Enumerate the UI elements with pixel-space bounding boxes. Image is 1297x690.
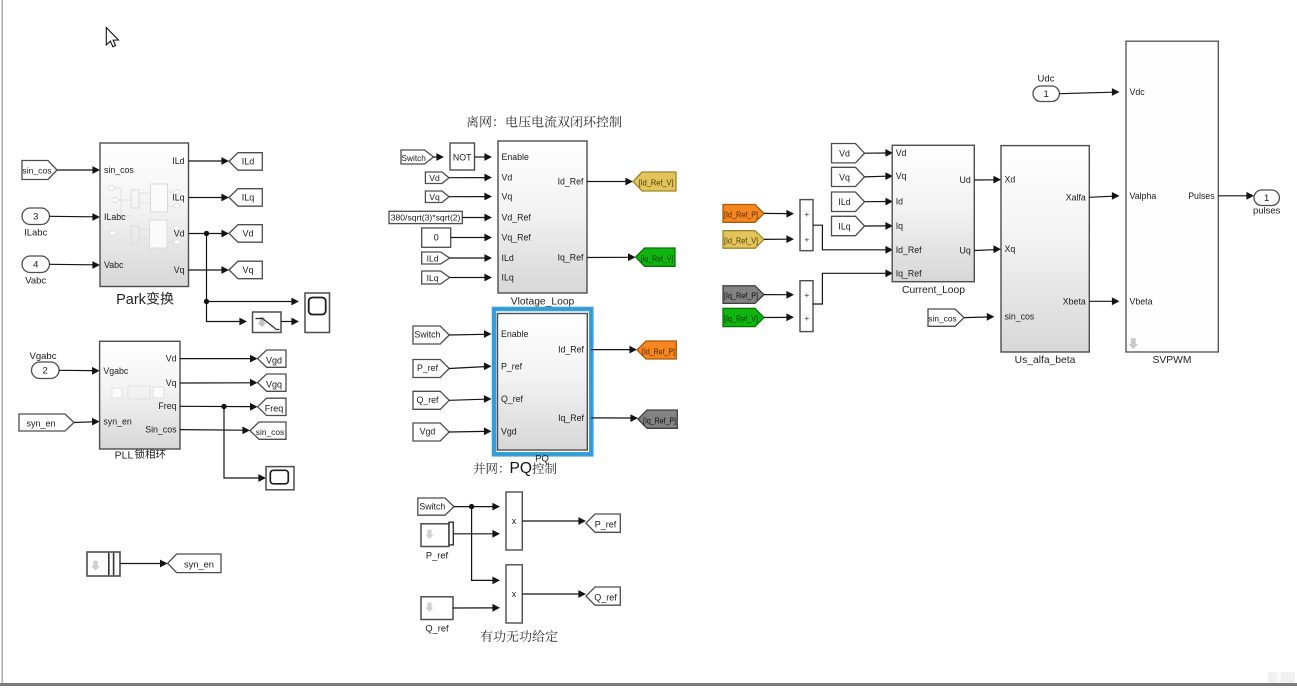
svg-text:Vgd: Vgd	[266, 355, 282, 365]
source block P_ref	[421, 524, 449, 547]
wire product1 to P_ref goto	[522, 520, 579, 522]
svg-text:ILd: ILd	[427, 253, 439, 263]
watermark	[1268, 672, 1295, 683]
inport 2 Vgabc	[32, 362, 60, 379]
wire Vd to Vloop	[449, 177, 485, 179]
from tag P_ref (PQ)	[413, 360, 449, 378]
subsystem Vlotage_Loop	[498, 141, 587, 293]
svg-text:Xq: Xq	[1005, 244, 1016, 254]
svg-text:sin_cos: sin_cos	[22, 165, 51, 175]
wire Q_ref to product2	[453, 607, 493, 609]
wire const380 to Vloop	[462, 217, 485, 219]
svg-text:Vq: Vq	[166, 378, 177, 388]
constant 0	[422, 228, 451, 247]
svg-text:Vabc: Vabc	[25, 276, 46, 287]
svg-text:PQ: PQ	[535, 454, 549, 465]
product block 2	[506, 565, 522, 623]
goto tag sin_cos	[250, 422, 286, 439]
wire sum2 to Iq_Ref port	[813, 273, 886, 304]
svg-text:ILabc: ILabc	[24, 228, 47, 239]
wire sum1 to Id_Ref port	[813, 225, 886, 250]
svg-text:pulses: pulses	[1253, 206, 1281, 217]
goto tag ILd	[229, 153, 262, 171]
svg-text:380/sqrt(3)*sqrt(2): 380/sqrt(3)*sqrt(2)	[391, 213, 461, 223]
svg-text:syn_en: syn_en	[26, 419, 55, 429]
svg-text:Vq: Vq	[839, 172, 850, 182]
svg-text:Vq: Vq	[429, 192, 440, 202]
svg-text:Q_ref: Q_ref	[501, 394, 524, 404]
svg-text:+: +	[804, 209, 809, 219]
wire pulse to syn_en goto	[120, 563, 161, 565]
from tag Q_ref (PQ)	[413, 391, 449, 409]
title 离网：电压电流双闭环控制	[467, 116, 622, 128]
goto tag Freq	[258, 398, 286, 415]
wire Pulses to outport	[1218, 195, 1247, 197]
from tag ILq (Vloop)	[422, 271, 450, 284]
svg-text:Q_ref: Q_ref	[425, 624, 449, 634]
svg-text:Xd: Xd	[1005, 175, 1016, 185]
svg-text:Id_Ref: Id_Ref	[558, 177, 584, 187]
logic NOT block	[450, 143, 475, 170]
from tag syn_en	[19, 414, 74, 431]
wire sin_cos to Us_alfa_beta	[964, 316, 988, 319]
svg-text:Vd: Vd	[242, 229, 253, 239]
wire P_ref to PQ	[449, 367, 485, 369]
svg-text:+: +	[804, 290, 809, 300]
svg-text:ILq: ILq	[838, 221, 850, 231]
svg-text:Vgq: Vgq	[266, 379, 282, 389]
scope Scope1	[305, 293, 330, 333]
from tag sin_cos	[22, 161, 57, 180]
svg-text:Park: Park	[116, 292, 147, 308]
svg-text:+: +	[804, 313, 809, 323]
svg-text:x: x	[512, 516, 517, 526]
junction Switch branch	[469, 504, 474, 509]
wire Vd to cl	[865, 152, 887, 154]
svg-text:Enable: Enable	[501, 329, 528, 339]
svg-text:Pulses: Pulses	[1188, 191, 1215, 201]
from tag ILd (cl)	[832, 192, 865, 212]
svg-text:2: 2	[43, 366, 48, 377]
svg-text:Enable: Enable	[502, 152, 529, 162]
svg-text:1: 1	[1264, 193, 1269, 204]
svg-text:ILd: ILd	[502, 253, 514, 263]
from tag Vd (cl)	[832, 144, 865, 163]
svg-text:sin_cos: sin_cos	[1005, 312, 1035, 322]
wire NOT to Enable	[475, 156, 486, 158]
from tag Id_Ref_V yellow	[723, 231, 764, 249]
goto tag ILq	[229, 189, 262, 207]
wire gray to sum2	[764, 294, 787, 296]
wire ILd to Vloop	[450, 257, 486, 259]
product block 1	[506, 492, 522, 550]
svg-text:Vd: Vd	[839, 149, 850, 159]
svg-text:ILd: ILd	[838, 197, 850, 207]
subsystem Current_Loop	[892, 145, 974, 281]
from tag ILd (Vloop)	[422, 252, 450, 264]
rate transition block	[253, 312, 282, 333]
goto tag Vq	[229, 261, 262, 279]
svg-text:Vq: Vq	[242, 265, 253, 275]
wire PLL Vd to Vgd	[180, 358, 251, 360]
wire Switch to PQ	[449, 333, 485, 336]
svg-text:Switch: Switch	[415, 330, 441, 340]
wire syn_en to PLL	[74, 421, 93, 424]
wire Vq to cl	[865, 175, 887, 178]
goto tag Id_Ref_P orange	[637, 341, 676, 359]
svg-text:Ud: Ud	[960, 175, 971, 185]
svg-text:P_ref: P_ref	[417, 363, 439, 373]
outport pulses 1	[1254, 190, 1279, 206]
svg-text:Vq: Vq	[502, 192, 513, 202]
svg-text:1: 1	[1044, 89, 1049, 100]
subsystem Us_alfa_beta	[1001, 146, 1089, 352]
wire inport4 to Park	[50, 263, 94, 266]
svg-text:[Iq_Ref_P]: [Iq_Ref_P]	[643, 415, 676, 425]
goto tag Q_ref	[586, 587, 620, 605]
wire Park Vq to tag	[189, 269, 223, 271]
svg-text:Vq_Ref: Vq_Ref	[502, 233, 532, 243]
wire Xalfa to Valpha	[1089, 196, 1113, 197]
wire inport2 to PLL	[59, 369, 93, 371]
wire const0 to Vloop	[451, 237, 486, 239]
goto tag Vgq	[258, 374, 286, 391]
svg-text:NOT: NOT	[453, 153, 472, 163]
svg-text:sin_cos: sin_cos	[928, 314, 956, 324]
wire Xbeta to Vbeta	[1089, 300, 1113, 302]
svg-text:Vd: Vd	[896, 148, 907, 158]
wire Ud to Xd	[974, 179, 994, 181]
junction Vd scope branch	[204, 299, 209, 304]
wire P_ref to product1	[453, 533, 493, 535]
svg-text:Valpha: Valpha	[1130, 191, 1157, 201]
svg-text:syn_en: syn_en	[103, 417, 131, 427]
from tag Iq_Ref_P gray	[723, 286, 764, 304]
svg-text:Iq: Iq	[896, 221, 903, 231]
from tag Switch (PQ)	[413, 326, 449, 344]
wire branch to scope1 input1	[207, 301, 293, 303]
wire PLL Sin_cos to tag	[180, 429, 243, 432]
svg-text:syn_en: syn_en	[184, 560, 214, 570]
svg-text:Vq: Vq	[174, 265, 185, 275]
junction Freq branch	[221, 404, 226, 409]
inport 4 Vabc	[22, 256, 50, 273]
wire green to sum2	[764, 316, 787, 318]
wire ILq to cl	[865, 225, 887, 227]
svg-text:Current_Loop: Current_Loop	[902, 285, 965, 296]
goto tag syn_en out	[168, 554, 221, 573]
svg-text:[Iq_Ref_V]: [Iq_Ref_V]	[724, 314, 758, 324]
from tag Vq (cl)	[832, 167, 865, 186]
wire Freq branch to scope2	[224, 407, 259, 479]
svg-text:Xbeta: Xbeta	[1063, 296, 1086, 306]
svg-text:4: 4	[33, 260, 38, 271]
goto tag Id_Ref_V yellow	[633, 172, 676, 191]
svg-text:Q_ref: Q_ref	[416, 395, 439, 405]
subsystem SVPWM	[1126, 41, 1218, 352]
svg-text:P_ref: P_ref	[595, 519, 617, 529]
svg-text:+: +	[804, 235, 809, 245]
svg-text:Vgd: Vgd	[420, 427, 436, 437]
wire Q_ref to PQ	[449, 399, 485, 400]
svg-text:Vd_Ref: Vd_Ref	[502, 213, 532, 223]
svg-text:Udc: Udc	[1038, 74, 1055, 85]
svg-text:[Id_Ref_P]: [Id_Ref_P]	[642, 346, 675, 356]
svg-text:Vq: Vq	[896, 171, 907, 181]
svg-text:P_ref: P_ref	[426, 551, 449, 561]
svg-text:Id_Ref: Id_Ref	[558, 345, 584, 355]
svg-text:Vdc: Vdc	[1130, 87, 1146, 97]
source block Q_ref	[421, 597, 453, 620]
wire ILd to cl	[865, 201, 887, 203]
from tag Vgd (PQ)	[413, 423, 449, 441]
goto tag Iq_Ref_P gray	[638, 410, 677, 428]
wire Uq to Xq	[974, 249, 994, 252]
from tag Switch (ref)	[418, 498, 454, 515]
svg-text:Sin_cos: Sin_cos	[145, 425, 177, 435]
inport 3 ILabc	[22, 208, 50, 225]
wire Udc to Vdc	[1059, 92, 1113, 94]
svg-text:Iq_Ref: Iq_Ref	[558, 413, 584, 423]
wire rate block to scope1 input2	[281, 321, 292, 323]
svg-text:sin_cos: sin_cos	[256, 427, 284, 437]
svg-text:[Id_Ref_V]: [Id_Ref_V]	[639, 178, 674, 188]
svg-text:ILq: ILq	[502, 273, 514, 283]
canvas left edge	[1, 0, 3, 684]
wire PLL Vq to Vgq	[180, 382, 251, 384]
from tag Vq (Vloop)	[425, 191, 449, 203]
wire sin_cos to Park	[57, 169, 93, 171]
from tag Iq_Ref_V green	[723, 308, 764, 326]
svg-text:ILabc: ILabc	[104, 212, 126, 222]
wire ILq to Vloop	[450, 277, 486, 279]
svg-text:Vd: Vd	[429, 173, 440, 183]
wire product2 to Q_ref goto	[522, 593, 579, 595]
goto tag Vd	[229, 225, 262, 243]
wire yellow to sum1	[764, 238, 787, 240]
goto tag P_ref	[586, 514, 620, 532]
from tag sin_cos (right)	[928, 309, 964, 326]
mouse cursor	[106, 28, 118, 47]
svg-text:ILq: ILq	[427, 273, 439, 283]
wire Vq to Vloop	[449, 196, 485, 198]
subsystem PQ	[498, 314, 588, 451]
svg-text:[Iq_Ref_V]: [Iq_Ref_V]	[641, 253, 674, 263]
wire Id_Ref to yellow goto	[587, 181, 626, 183]
svg-text:Us_alfa_beta: Us_alfa_beta	[1015, 355, 1076, 366]
svg-text:Xalfa: Xalfa	[1066, 192, 1086, 202]
inport Udc 1	[1033, 86, 1059, 102]
svg-text:PQ: PQ	[510, 460, 532, 477]
wire PQ Id_Ref to orange goto	[591, 349, 630, 351]
wire PQ Iq_Ref to gray goto	[591, 417, 631, 419]
wire inport3 to Park	[50, 215, 94, 218]
from tag Vd (Vloop)	[425, 172, 449, 184]
wire PLL Freq to tag	[180, 405, 251, 407]
svg-text:Vbeta: Vbeta	[1130, 296, 1153, 306]
svg-text:Vd: Vd	[502, 173, 513, 183]
svg-text:Id_Ref: Id_Ref	[896, 245, 922, 255]
from tag ILq (cl)	[832, 216, 865, 235]
svg-text:Freq: Freq	[158, 401, 176, 411]
goto tag Vgd	[258, 350, 286, 367]
svg-text:Freq: Freq	[265, 403, 284, 413]
svg-text:Switch: Switch	[401, 153, 426, 163]
svg-text:ILq: ILq	[172, 193, 184, 203]
svg-text:Vgabc: Vgabc	[103, 366, 129, 376]
svg-text:Vgd: Vgd	[501, 426, 517, 436]
svg-text:[Iq_Ref_P]: [Iq_Ref_P]	[724, 291, 758, 301]
goto tag Iq_Ref_V green	[636, 248, 675, 266]
svg-text:Vd: Vd	[166, 354, 177, 364]
wire Park ILq to tag	[189, 197, 223, 199]
wire Iq_Ref to green goto	[587, 256, 629, 258]
wire Vgd to PQ	[449, 430, 485, 433]
wire Switch branch to product2	[472, 507, 494, 581]
wire Park ILd to tag	[189, 160, 223, 162]
sum block 1	[800, 200, 813, 251]
wire Park Vd to tag	[189, 233, 223, 235]
svg-text:[Id_Ref_P]: [Id_Ref_P]	[724, 210, 758, 220]
svg-text:sin_cos: sin_cos	[104, 165, 134, 175]
constant 380/sqrt(3)*sqrt(2)	[389, 211, 462, 223]
svg-text:Switch: Switch	[419, 501, 445, 511]
svg-text:Uq: Uq	[960, 246, 971, 256]
source block syn_en pulse	[87, 552, 120, 576]
svg-text:0: 0	[434, 233, 439, 243]
wire Switch to NOT	[434, 156, 438, 158]
scope Scope2	[266, 467, 294, 490]
svg-text:Iq_Ref: Iq_Ref	[558, 253, 584, 263]
subsystem PLL	[100, 341, 180, 449]
svg-text:Vd: Vd	[174, 229, 185, 239]
svg-text:Vgabc: Vgabc	[30, 351, 57, 362]
selection frame PQ	[494, 309, 591, 454]
sum block 2	[800, 281, 813, 332]
svg-text:Q_ref: Q_ref	[594, 592, 617, 602]
junction Vd branch	[204, 231, 209, 236]
label 并网：PQ控制	[474, 463, 502, 475]
svg-text:Iq_Ref: Iq_Ref	[896, 268, 922, 278]
svg-text:3: 3	[33, 212, 38, 223]
svg-text:Id: Id	[896, 197, 903, 207]
svg-text:Vabc: Vabc	[104, 260, 124, 270]
from tag Id_Ref_P orange	[723, 205, 764, 223]
wire Switch to product1	[454, 506, 493, 508]
svg-text:Vlotage_Loop: Vlotage_Loop	[511, 297, 575, 308]
wire Vd branch down	[206, 234, 208, 302]
svg-text:ILd: ILd	[242, 157, 255, 167]
svg-text:ILd: ILd	[172, 156, 184, 166]
wire orange to sum1	[764, 212, 787, 214]
svg-text:ILq: ILq	[242, 193, 255, 203]
from tag Switch (Vloop)	[401, 150, 434, 164]
svg-text:PLL: PLL	[115, 450, 134, 462]
label 有功无功给定	[481, 630, 558, 642]
svg-text:P_ref: P_ref	[501, 361, 523, 371]
subsystem Park	[100, 143, 189, 287]
svg-text:[Id_Ref_V]: [Id_Ref_V]	[724, 235, 758, 245]
svg-text:x: x	[512, 589, 517, 599]
wire branch to rate block	[207, 302, 241, 322]
canvas bottom bar	[0, 683, 1297, 686]
svg-text:SVPWM: SVPWM	[1153, 355, 1192, 366]
